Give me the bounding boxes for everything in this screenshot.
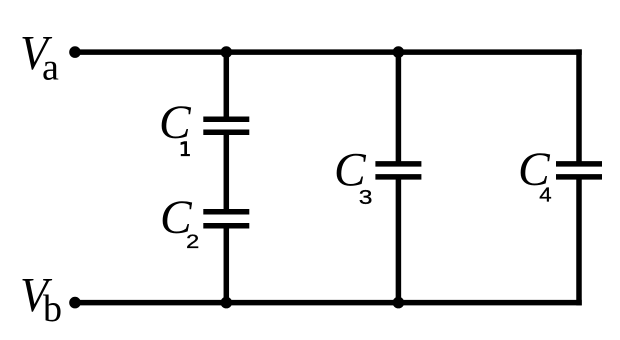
- wire branch1 top segment (top rail to C1): [224, 49, 230, 119]
- wire branch2 bottom segment (C3 to bottom rail): [396, 177, 402, 306]
- wire branch1 middle segment (C1 to C2): [224, 132, 230, 212]
- svg-text:4: 4: [539, 185, 551, 207]
- wire top rail Va to top-right corner: [75, 49, 582, 55]
- node Va terminal dot: [69, 46, 81, 58]
- svg-text:b: b: [43, 288, 62, 330]
- wire bottom rail Vb to bottom-right corner: [75, 300, 582, 306]
- wire branch3 top segment (top-right corner to C4): [576, 49, 582, 164]
- capacitor C3 plates: [375, 161, 421, 167]
- node Vb terminal dot: [69, 297, 81, 309]
- junction bottom of branch1: [221, 297, 233, 309]
- svg-text:3: 3: [359, 186, 373, 209]
- capacitor C1 plates: [203, 116, 249, 122]
- junction top of branch1: [221, 46, 233, 58]
- capacitor C2 plates: [203, 209, 249, 215]
- svg-text:2: 2: [186, 231, 199, 253]
- wire branch2 top segment (top rail to C3): [396, 49, 402, 164]
- junction top of branch2: [393, 46, 405, 58]
- wire branch1 bottom segment (C2 to bottom rail): [224, 226, 230, 306]
- junction bottom of branch2: [393, 297, 405, 309]
- capacitor C4 plates: [556, 161, 602, 167]
- wire branch3 bottom segment (C4 to bottom-right corner): [576, 177, 582, 306]
- svg-text:a: a: [42, 47, 59, 89]
- svg-text:C: C: [159, 97, 192, 149]
